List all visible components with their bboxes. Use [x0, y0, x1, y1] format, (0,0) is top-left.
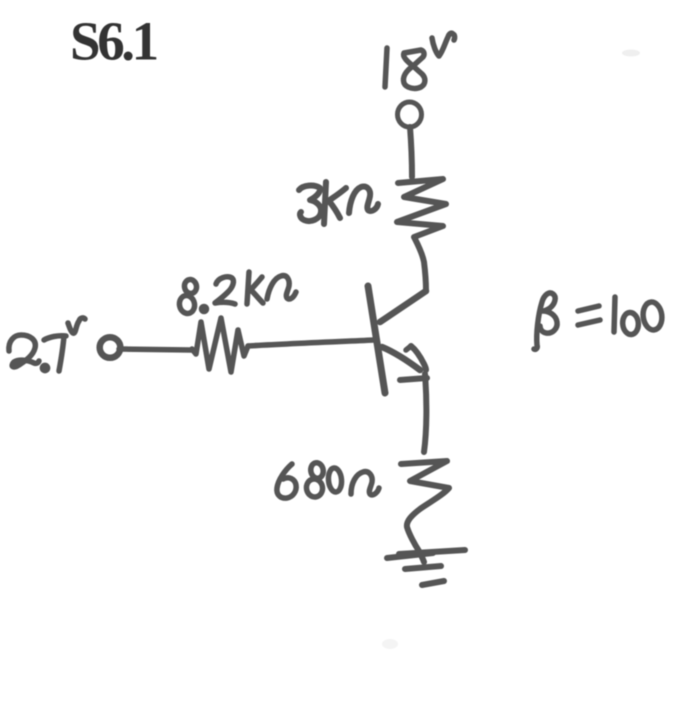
resistor R3 680 — [401, 461, 449, 562]
wire VCC to R1 — [410, 127, 412, 177]
ground — [387, 550, 465, 585]
wire R2 to base — [248, 340, 374, 346]
node VIN label 2.7V — [9, 318, 85, 371]
resistor R2 8.2K — [192, 318, 248, 372]
label R1 3K — [299, 182, 378, 224]
transistor Q1 — [368, 286, 427, 393]
label beta=100 — [534, 293, 663, 349]
resistor R1 3K — [397, 179, 446, 291]
title S6.1 — [70, 11, 157, 72]
node VCC label 18V — [385, 33, 455, 88]
terminal VIN — [100, 337, 121, 358]
wire VIN to R2 — [119, 349, 191, 350]
label R3 680 — [277, 462, 379, 499]
label R2 8.2K — [178, 272, 296, 315]
wire emitter to R3 — [424, 374, 426, 452]
terminal VCC — [398, 102, 422, 127]
svg-text:S6.1: S6.1 — [70, 11, 157, 72]
